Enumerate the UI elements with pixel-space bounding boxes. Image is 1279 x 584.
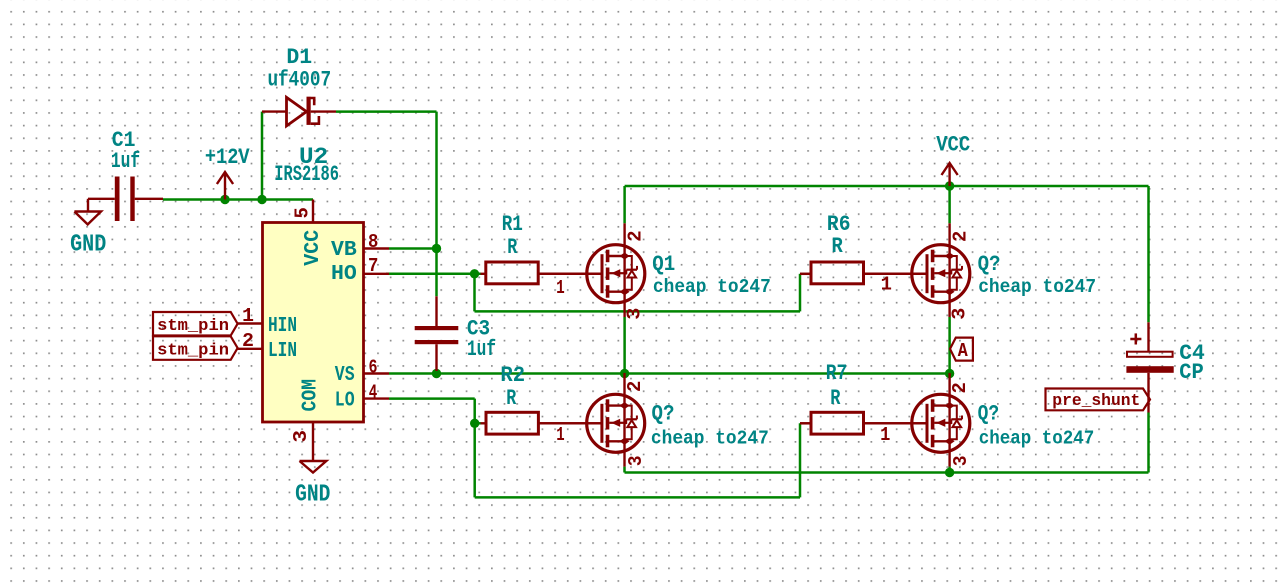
- wire VCC top rail: [625, 185, 1149, 188]
- pin 8 VB: [364, 247, 390, 249]
- wire LO down to R2 row: [473, 399, 476, 424]
- transistor Q3 bottom left: [538, 373, 645, 467]
- svg-text:3: 3: [623, 308, 645, 320]
- junction VCC rail: [945, 181, 954, 190]
- pin 7 HO: [364, 273, 390, 275]
- svg-text:1: 1: [881, 274, 892, 296]
- svg-text:1uf: 1uf: [111, 149, 140, 174]
- svg-text:6: 6: [369, 357, 378, 379]
- wire HO branch across: [475, 310, 801, 313]
- resistor R6: [811, 262, 864, 284]
- svg-text:Q1: Q1: [652, 252, 675, 277]
- wire LO branch up to R7: [799, 423, 802, 497]
- wire Q2 source to VS node A: [948, 317, 951, 374]
- svg-text:2: 2: [949, 231, 971, 242]
- wire VS rail: [389, 372, 950, 375]
- global label stm_pin (HIN): [153, 312, 238, 336]
- svg-text:GND: GND: [70, 232, 106, 259]
- pin 3 COM bottom: [312, 422, 314, 461]
- wire right column to C4: [1147, 186, 1150, 322]
- junction bottom rail: [945, 468, 954, 477]
- svg-text:3: 3: [948, 308, 970, 320]
- svg-text:3: 3: [290, 430, 312, 443]
- wire HO branch down: [473, 274, 476, 312]
- wire LO branch across: [475, 496, 800, 499]
- ground GND below U2: [300, 461, 327, 473]
- svg-text:stm_pin: stm_pin: [157, 341, 229, 360]
- capacitor C1: [88, 177, 163, 222]
- junction +12V: [220, 195, 229, 204]
- svg-text:4: 4: [369, 382, 378, 404]
- svg-text:cheap to247: cheap to247: [978, 276, 1096, 298]
- svg-text:5: 5: [292, 207, 314, 218]
- transistor Q2 top right: [863, 223, 970, 317]
- capacitor C4 polarized: [1126, 322, 1173, 412]
- svg-text:CP: CP: [1179, 360, 1204, 385]
- wire Q1 source to VS: [623, 317, 626, 374]
- svg-text:pre_shunt: pre_shunt: [1052, 392, 1140, 411]
- svg-text:R: R: [830, 386, 841, 411]
- wire HO pin7 to R1: [386, 273, 481, 276]
- wire VB column down to C3: [435, 112, 438, 297]
- svg-text:VB: VB: [331, 239, 357, 262]
- op-amp driver U2 IRS2186 body: [263, 223, 364, 423]
- svg-text:1: 1: [242, 305, 254, 327]
- svg-text:cheap to247: cheap to247: [979, 428, 1095, 450]
- svg-text:GND: GND: [295, 482, 330, 509]
- wire to R2 left: [475, 422, 481, 425]
- ground GND left: [74, 199, 101, 225]
- global label pre_shunt: [1046, 389, 1151, 411]
- resistor R7: [811, 412, 864, 434]
- pin 4 LO: [364, 397, 390, 399]
- wire to R6 left: [800, 273, 811, 276]
- svg-text:COM: COM: [299, 379, 322, 412]
- wire HO branch up to R6: [799, 274, 802, 312]
- wire Q4 source stub: [948, 467, 951, 473]
- resistor R1: [481, 273, 486, 275]
- svg-text:Q?: Q?: [978, 252, 1001, 277]
- wire Q2 drain: [948, 186, 951, 223]
- svg-text:3: 3: [950, 456, 972, 467]
- pin 5 VCC top: [312, 200, 314, 223]
- svg-text:LO: LO: [335, 390, 355, 413]
- junction LO/R2: [470, 419, 479, 428]
- svg-text:HIN: HIN: [268, 315, 297, 338]
- junction Q1 source VS: [620, 369, 629, 378]
- resistor R2: [481, 422, 487, 424]
- svg-text:8: 8: [368, 231, 378, 253]
- svg-text:cheap to247: cheap to247: [653, 276, 771, 298]
- svg-text:VS: VS: [335, 364, 355, 387]
- pin 1 HIN: [238, 322, 263, 324]
- svg-text:2: 2: [949, 382, 971, 393]
- svg-text:1: 1: [556, 424, 564, 446]
- svg-text:D1: D1: [286, 45, 312, 70]
- wire VB pin8: [389, 247, 437, 250]
- svg-text:A: A: [958, 340, 969, 362]
- svg-text:VCC: VCC: [936, 133, 970, 158]
- svg-text:R: R: [507, 235, 518, 260]
- wire D1 anode branch: [261, 112, 264, 200]
- svg-text:R7: R7: [826, 361, 848, 386]
- transistor Q4 bottom right: [863, 373, 970, 467]
- svg-text:3: 3: [625, 456, 647, 467]
- svg-text:2: 2: [624, 381, 646, 392]
- capacitor C3: [415, 296, 459, 371]
- svg-text:1uf: 1uf: [467, 337, 496, 362]
- svg-text:1: 1: [880, 424, 890, 446]
- svg-text:stm_pin: stm_pin: [157, 317, 229, 336]
- svg-text:R: R: [832, 234, 844, 259]
- wire LO branch down: [473, 423, 476, 497]
- svg-text:cheap to247: cheap to247: [651, 428, 769, 450]
- transistor Q1: [538, 223, 645, 317]
- pin 6 VS: [364, 372, 390, 374]
- svg-text:R1: R1: [502, 212, 523, 237]
- junction VB/C3 top: [432, 244, 441, 253]
- svg-text:R2: R2: [500, 363, 525, 388]
- junction D1 anode: [257, 195, 266, 204]
- svg-text:7: 7: [368, 255, 378, 277]
- node A global label: [950, 338, 973, 361]
- power VCC: [942, 163, 958, 186]
- junction HO/R1: [470, 269, 479, 278]
- global label stm_pin (LIN): [153, 336, 238, 360]
- svg-text:HO: HO: [331, 263, 357, 286]
- pin 2 LIN: [238, 348, 263, 350]
- wire to R7 left: [800, 422, 811, 425]
- wire LO pin4: [389, 397, 475, 400]
- wire Q1 drain: [623, 186, 626, 223]
- junction C3 bottom VS: [432, 369, 441, 378]
- wire bottom shunt rail: [625, 471, 1149, 474]
- diode D1 uf4007: [262, 97, 336, 126]
- power +12V: [217, 172, 233, 200]
- svg-text:2: 2: [242, 330, 254, 352]
- svg-text:2: 2: [624, 230, 646, 241]
- svg-text:+12V: +12V: [205, 145, 250, 170]
- svg-text:IRS2186: IRS2186: [274, 162, 339, 187]
- wire C4 bottom to shunt rail: [1147, 413, 1150, 473]
- svg-text:Q?: Q?: [652, 402, 675, 427]
- wire C1 to U2 pin5 +12V rail: [163, 198, 313, 201]
- svg-text:LIN: LIN: [268, 340, 297, 363]
- wire D1 cathode to VB column: [336, 110, 437, 113]
- svg-text:R: R: [506, 386, 517, 411]
- svg-text:Q?: Q?: [978, 402, 1000, 427]
- svg-text:VCC: VCC: [302, 229, 325, 265]
- svg-text:uf4007: uf4007: [267, 68, 331, 93]
- junction VS node A: [945, 369, 954, 378]
- svg-text:1: 1: [556, 277, 565, 299]
- wire Q3 source stub: [623, 467, 626, 473]
